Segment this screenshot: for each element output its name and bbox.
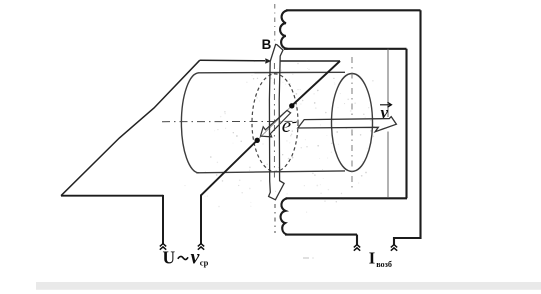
terminal chevrons I left (354, 245, 360, 251)
scan speckle noise (205, 60, 374, 212)
cylinder axis dash-dot (162, 120, 297, 122)
plate top edge (200, 59, 265, 62)
plate bottom edge (61, 195, 163, 197)
cylinder right end cap (332, 74, 373, 172)
bottom coil bottom line (285, 234, 357, 236)
e motion outline arrow (261, 110, 291, 136)
inner right wire (405, 49, 407, 199)
svg-text:I: I (369, 249, 375, 268)
bottom coil top line (286, 197, 408, 199)
svg-text:U: U (163, 247, 176, 267)
plate right edge diagonal lower (201, 141, 257, 196)
svg-text:возб: возб (376, 260, 392, 269)
left wire to terminal (162, 195, 164, 244)
label tilde (178, 256, 188, 259)
svg-text:ср: ср (200, 258, 209, 268)
terminal chevrons U right (198, 244, 204, 250)
cylinder left end cap (181, 73, 199, 173)
orbit dashed ellipse (252, 74, 298, 172)
right wire to terminal (200, 195, 202, 244)
terminal chevrons U left (160, 244, 166, 250)
top coil bottom line (284, 48, 407, 50)
plate left edge (61, 60, 200, 196)
svg-text:e: e (282, 113, 291, 137)
v vector arrow (380, 102, 392, 107)
svg-text:B: B (262, 37, 272, 52)
plate right edge diagonal middle faint (257, 106, 292, 141)
cylinder barrel bottom line (196, 171, 345, 173)
plate right edge diagonal upper (292, 61, 340, 106)
electron dot lower (255, 138, 260, 143)
vertical dash-dot B axis lower (274, 204, 276, 233)
bottom coil terminal wire (356, 235, 358, 245)
bottom coil loops (281, 198, 287, 234)
plate top edge arrowhead (265, 58, 271, 64)
terminal chevrons I right (391, 245, 397, 251)
vertical dash-dot B axis (274, 4, 276, 44)
outer right wire (394, 10, 421, 244)
top coil top line (286, 9, 421, 11)
e superscript minus (292, 121, 296, 123)
cylinder barrel top line (199, 71, 346, 74)
vertical dash-dot B axis middle (273, 63, 275, 180)
B field outline arrow (269, 44, 285, 200)
svg-text:v: v (381, 103, 389, 122)
v velocity outline arrow (298, 117, 397, 132)
bottom scan band (36, 282, 541, 290)
thin inner vertical wire (387, 49, 389, 197)
top coil loops (280, 10, 287, 48)
vertical dash-dot through right cap (351, 57, 353, 190)
electron dot upper (289, 103, 294, 108)
faint dash-dot mark bottom middle (303, 257, 314, 259)
plate top edge right part (280, 60, 340, 62)
